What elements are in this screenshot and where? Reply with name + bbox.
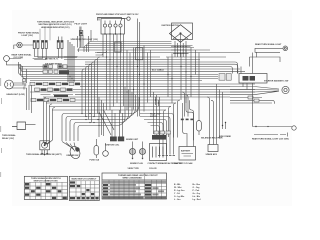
connector row B dark bar <box>59 70 69 73</box>
svg-text:G - Lgt Blu: G - Lgt Blu <box>174 195 185 198</box>
wire bus y76.5 <box>21 64 219 77</box>
lamp RT2 bottom right <box>292 126 296 130</box>
wire bus y97 <box>43 96 230 98</box>
table T2 headlight switch <box>69 176 99 200</box>
wire verticals x77-92 fan corners to buses <box>78 30 92 48</box>
wire rear lamp bottom line <box>253 126 293 128</box>
wire bus y50 <box>77 49 210 51</box>
svg-text:BAT NEU HL TL: BAT NEU HL TL <box>45 57 59 60</box>
wire converge into dimmer <box>62 142 76 152</box>
connector box pair mid right <box>219 74 225 81</box>
wire capsule lead <box>198 90 200 136</box>
svg-text:IGNITION SWITCH: IGNITION SWITCH <box>162 25 180 27</box>
lamp L4 in case <box>114 24 117 27</box>
winker relay box on drop <box>136 48 143 60</box>
headlamp case block U2 <box>101 19 125 35</box>
spark unit dark block A <box>110 137 117 142</box>
wire bus y64.2 <box>85 64 238 73</box>
wire horn lead <box>105 143 107 151</box>
wire bus y45.5 <box>84 46 193 53</box>
node dots x155-158 <box>155 99 156 100</box>
lamp L2 in case <box>103 24 106 27</box>
svg-text:ACC CABLE: ACC CABLE <box>152 69 164 72</box>
svg-text:ALTERNATOR: ALTERNATOR <box>168 162 182 165</box>
svg-text:L - Grn: L - Grn <box>174 199 181 201</box>
wire ignition bus drops <box>168 48 191 104</box>
wire vertical to generator block <box>256 52 258 57</box>
wire bus y80.5 <box>30 80 202 82</box>
battery plates <box>182 154 194 157</box>
wire bus y106.5 <box>49 106 171 108</box>
svg-text:SWITCH: SWITCH <box>150 116 158 118</box>
wire leads inside case <box>105 21 121 35</box>
starter relay box <box>208 145 218 152</box>
wire vertical left loop x27 <box>26 69 28 110</box>
node dots under case <box>104 33 105 34</box>
wire buses into alternator <box>230 87 254 95</box>
svg-text:Y - Yel: Y - Yel <box>174 193 180 195</box>
headlight filament <box>7 83 11 87</box>
wire headlamp case drops <box>103 34 124 113</box>
wire center verticals x127-144 <box>127 46 144 112</box>
svg-text:LIGHT (12V): LIGHT (12V) <box>22 35 34 37</box>
svg-text:SPEEDOMETER LIGHT (12V): SPEEDOMETER LIGHT (12V) <box>71 39 99 41</box>
wire bus y78.5 <box>23 66 219 79</box>
alternator cone wires <box>254 87 279 95</box>
svg-text:Lb - Blu: Lb - Blu <box>193 196 201 198</box>
svg-text:B - Blk: B - Blk <box>174 184 181 186</box>
wire verticals right of ignition <box>196 50 200 90</box>
svg-text:O - Org: O - Org <box>193 187 201 189</box>
wire rear bottom second <box>254 134 286 136</box>
svg-text:VIEW TYPE: VIEW TYPE <box>128 168 140 170</box>
svg-text:W - Wht: W - Wht <box>174 186 182 189</box>
wire bus y71.5 <box>21 65 245 72</box>
left edge scan specks <box>0 78 3 177</box>
dimmer switch DS1 oval <box>69 145 82 160</box>
connector row A boxes <box>43 65 48 68</box>
wire staircase bus L3 with arc up <box>70 92 132 141</box>
wire tick ignition <box>171 47 191 54</box>
node row ignition terminals 2 <box>174 49 175 50</box>
wire headlight leads <box>12 83 27 88</box>
connector bars above contact breaker <box>154 131 159 134</box>
ignition switch diamond <box>170 25 192 43</box>
table T1 ignition switch continuity <box>24 176 67 199</box>
staircase bends center-right <box>164 100 181 138</box>
svg-text:TURN SIGNAL: TURN SIGNAL <box>2 134 16 137</box>
connector dark tips CN1 CN2 <box>33 41 35 43</box>
alternator terminal bars <box>158 155 175 157</box>
svg-text:SPARK UNIT: SPARK UNIT <box>126 138 139 141</box>
horn H1 left edge <box>4 56 10 62</box>
wire main switch stubs with arrows <box>42 150 47 155</box>
wire flasher lead <box>26 124 36 126</box>
wire staircase bus L5 with arc up <box>78 87 125 141</box>
ignition switch contact arms <box>173 34 188 43</box>
lamp L3 in case <box>108 24 111 27</box>
dark junction blob left <box>59 72 69 74</box>
svg-text:CONTACT BREAKER: CONTACT BREAKER <box>148 162 169 165</box>
wire bus y41.5 <box>89 42 172 53</box>
svg-text:COLOR: COLOR <box>149 168 157 170</box>
fan of corners from lamps to buses left <box>33 57 78 60</box>
selenium rectifier block SR1 <box>150 144 167 161</box>
wire bus y110 <box>52 109 166 111</box>
connector pair CN3 <box>57 41 59 49</box>
node dots on buses <box>67 74 68 75</box>
wire bus y86.7 <box>80 86 230 88</box>
svg-text:MAIN SWITCH CONNECT: MAIN SWITCH CONNECT <box>72 178 98 181</box>
svg-text:PILOT LIGHT: PILOT LIGHT <box>75 24 88 26</box>
main switch dot <box>44 144 46 146</box>
tick headlight connector <box>23 82 25 90</box>
wire bus y100 right of chain <box>75 99 180 101</box>
wire bus y92 <box>30 91 255 93</box>
node dots on rear lamp line <box>255 126 256 127</box>
alternator circle inner <box>284 88 287 91</box>
svg-text:SPARK ADV: SPARK ADV <box>206 153 218 156</box>
svg-text:IGNITION COIL: IGNITION COIL <box>105 145 120 147</box>
wire branch down from bus y94.7 <box>186 95 189 117</box>
wire short ticks row3 <box>41 94 74 96</box>
spark unit dark block B <box>118 137 124 142</box>
arrow spark plug tips <box>132 158 144 160</box>
AC generator block right <box>239 74 267 84</box>
svg-text:DIMMER SW: DIMMER SW <box>67 155 79 157</box>
ignition switch outer square <box>172 23 193 40</box>
arrow stub tips <box>41 153 48 156</box>
connector dark tips CN3 <box>57 41 59 43</box>
terminal hooks right <box>223 122 226 129</box>
tachometer lamp box <box>115 42 121 52</box>
wire right stair R5 <box>151 126 160 155</box>
main switch rotor <box>42 142 48 148</box>
svg-text:SIDE STAND: SIDE STAND <box>219 135 232 138</box>
ignition switch rotor dot <box>179 32 181 34</box>
svg-text:Gr - Gry: Gr - Gry <box>193 193 201 195</box>
dark bar row3 <box>54 95 68 97</box>
wire ignition leads down <box>175 41 186 57</box>
svg-text:REAR TURN SIGNAL LIGHT (12V 23: REAR TURN SIGNAL LIGHT (12V 23W) <box>252 138 289 141</box>
wire right stair R1 <box>140 114 174 155</box>
wire staircase bus L1 with arc up <box>62 97 139 141</box>
lamp L6 front turn signal eyelet <box>17 42 22 47</box>
svg-text:FUSE 15A: FUSE 15A <box>90 158 100 161</box>
connector chain row2 <box>35 88 40 91</box>
fuse F1 capsule <box>94 146 99 156</box>
svg-text:HIGH BEAM INDICATOR (12V): HIGH BEAM INDICATOR (12V) <box>41 26 70 29</box>
svg-text:HEADLIGHT (LOW): HEADLIGHT (LOW) <box>7 93 26 96</box>
wire bus y47.5 long <box>79 48 195 53</box>
ignition coil IC1 <box>129 148 135 154</box>
svg-text:REAR TURN SIGNAL LIGHT: REAR TURN SIGNAL LIGHT <box>255 43 282 46</box>
wire bus y69 <box>19 64 240 69</box>
headlight HL1 <box>5 80 14 89</box>
wire battery feed hook B <box>190 100 194 140</box>
wire rear bracket lower <box>250 57 281 67</box>
selenium plates <box>153 147 164 158</box>
corner bends case drops to left buses <box>96 51 107 55</box>
svg-text:Br - Brn: Br - Brn <box>193 184 201 186</box>
svg-text:WIRE CONDENSED: WIRE CONDENSED <box>123 178 143 180</box>
wire drops into spark unit <box>112 110 123 137</box>
AC generator dark cells <box>243 76 249 81</box>
svg-text:TURN SIGNAL INDICATOR LIGHT (1: TURN SIGNAL INDICATOR LIGHT (12V) <box>37 21 74 24</box>
node row ignition terminals 3 <box>174 53 175 54</box>
wire bus y59.5 <box>64 59 200 61</box>
wire bus y66.5 <box>21 67 233 74</box>
connector pair CN1 <box>33 41 35 49</box>
corner fan buses up x82-100 <box>82 57 100 123</box>
wire long vertical right x252.5 <box>243 83 253 127</box>
svg-text:P - Pnk: P - Pnk <box>193 190 201 192</box>
ignition coil IC1 hatches <box>131 149 134 155</box>
tail lamp tick <box>287 133 289 137</box>
legend wire color codes column 1 <box>174 184 185 201</box>
wire bus y62 <box>85 62 238 74</box>
wire right stair R4 <box>148 123 164 155</box>
wire right stair R2 <box>140 117 170 155</box>
wire horn leads <box>7 59 22 65</box>
wire CN3 leads <box>58 37 62 60</box>
svg-text:RELAY (12V): RELAY (12V) <box>2 137 14 140</box>
wire battery feed C <box>183 103 188 147</box>
horn HN1 <box>103 151 109 157</box>
wire right verticals x216-222 <box>217 84 223 144</box>
wire vertical left loop x29 <box>28 85 30 110</box>
main switch dark quadrant <box>45 142 48 145</box>
svg-text:FRONT AND REAR STOPLIGHT SWITC: FRONT AND REAR STOPLIGHT SWITCH 12V <box>96 13 139 16</box>
wire battery verticals x153-161 <box>154 92 160 135</box>
svg-text:R - Lgt Grn: R - Lgt Grn <box>174 189 185 192</box>
wire verticals center bottom x97-101 <box>99 97 104 137</box>
rectifier capsule RC1 <box>197 121 202 132</box>
wire diagonal bundle to spark unit <box>99 110 114 135</box>
legend wire color codes column 2 <box>193 184 202 201</box>
wire vertical left loop x31 <box>31 85 33 113</box>
wire left bundle verticals x43-51 <box>44 100 53 142</box>
wire feeds to starter relay box <box>207 97 214 145</box>
svg-text:TURN SIGNAL AND HORN SW (LEFT): TURN SIGNAL AND HORN SW (LEFT) <box>26 153 62 156</box>
wire bus y84 right of chain <box>80 83 255 85</box>
svg-text:NEUTRAL INDICATOR LIGHT (12V): NEUTRAL INDICATOR LIGHT (12V) <box>39 23 72 26</box>
lamp L7 pilot on wire <box>79 31 82 36</box>
table T3 wire routing chart <box>102 173 167 199</box>
lamp RT1 top right <box>283 46 288 51</box>
wire center verticals x147-151 <box>148 50 151 103</box>
contact breaker dark bar <box>152 135 166 140</box>
flasher relay box FR1 <box>12 122 26 130</box>
wire right stair R3 <box>144 120 167 155</box>
wire staircase bus L2 with arc up <box>66 95 136 141</box>
wire winker relay drop pair <box>138 19 140 117</box>
wire coil leads <box>133 142 143 159</box>
node row ignition terminals <box>174 46 175 47</box>
main switch MS1 body <box>40 141 50 150</box>
wire bus y52.5 <box>95 52 240 54</box>
wire eyelet lead <box>14 45 33 49</box>
battery BT1 box <box>179 147 196 161</box>
connector pair lower right <box>248 96 253 99</box>
wire short verticals x155-158 <box>156 97 159 106</box>
lamp L5 in case <box>119 24 122 27</box>
wire bus y57 <box>64 56 226 58</box>
ignition coil IC2 hatches <box>141 149 144 155</box>
dimmer switch dark contact <box>75 147 79 151</box>
connector row A dark labels <box>44 65 47 67</box>
leader lines from indicator labels <box>40 24 50 41</box>
junction dots staircase <box>81 113 82 114</box>
connector pair CN2 <box>42 41 44 49</box>
connector chain row1 <box>30 82 35 85</box>
lamp L1 stoplight pilot <box>127 17 130 20</box>
wire bus y94.5 right <box>75 94 230 96</box>
wire block feeds <box>238 53 253 74</box>
wire bus y43.5 <box>87 44 172 53</box>
wire CN1 CN2 leads <box>34 49 46 60</box>
alternator circle AG1 <box>282 86 289 93</box>
connector row B boxes <box>43 70 48 73</box>
node hook dots <box>222 125 223 126</box>
wire fuse leads <box>95 139 97 158</box>
wire pilot vertical <box>80 27 81 48</box>
corner bends into left bundle <box>44 98 56 111</box>
svg-text:STARTER MAGNETIC SW: STARTER MAGNETIC SW <box>264 80 288 83</box>
wire bus y89.5 right of chain <box>73 89 255 91</box>
wire bend down right <box>272 100 275 104</box>
switch S1 front stoplight body <box>98 18 122 21</box>
wire branch down from bus y92 <box>182 92 185 117</box>
wire lower right buses <box>230 98 272 104</box>
wire bus y74.5 <box>19 62 219 75</box>
wire rear lamp bracket <box>253 48 284 52</box>
ignition coil IC2 <box>139 148 145 154</box>
svg-text:Lg - Red: Lg - Red <box>193 199 202 201</box>
wire stoplight to lamp <box>122 18 127 20</box>
wire bus y103 <box>46 102 176 104</box>
terminal bars above battery <box>181 119 184 121</box>
wire converge into main switch <box>44 140 53 145</box>
svg-text:SPARK PLUG: SPARK PLUG <box>130 162 143 165</box>
tiny box left bus end <box>23 79 26 82</box>
svg-text:BATTERY: BATTERY <box>181 149 191 152</box>
wire battery feed hook A <box>186 97 194 147</box>
wire staircase bus L4 with arc up <box>74 90 129 142</box>
connector chain row4 <box>31 98 36 101</box>
wire verticals lamp cluster x68-74 <box>68 40 74 82</box>
